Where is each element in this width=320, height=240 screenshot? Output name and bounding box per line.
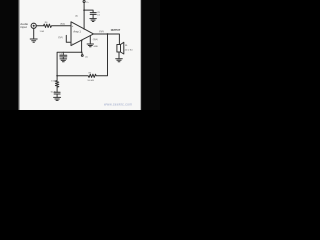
svg-text:(7)(2): (7)(2) <box>58 37 63 39</box>
svg-text:OUTPUT: OUTPUT <box>111 30 121 32</box>
svg-text:1 kΩ: 1 kΩ <box>40 31 45 33</box>
svg-text:0.1: 0.1 <box>97 14 100 16</box>
svg-text:(8)(1): (8)(1) <box>60 24 65 26</box>
svg-text:(3)(4): (3)(4) <box>93 39 98 41</box>
svg-text:(2)(9): (2)(9) <box>99 31 104 33</box>
svg-text:3.6 kΩ: 3.6 kΩ <box>87 80 94 82</box>
svg-text:(1): (1) <box>85 57 88 59</box>
svg-text:input: input <box>20 25 27 29</box>
svg-text:(6): (6) <box>75 15 78 17</box>
svg-text:R7: R7 <box>89 73 91 75</box>
svg-text:1 kΩ: 1 kΩ <box>51 81 56 83</box>
svg-text:www.seekic.com: www.seekic.com <box>104 102 132 106</box>
svg-text:Amp 1: Amp 1 <box>73 30 81 34</box>
svg-text:GND: GND <box>94 46 99 48</box>
svg-text:50 µF: 50 µF <box>51 91 57 93</box>
svg-text:4.0 or 8.0: 4.0 or 8.0 <box>125 48 133 51</box>
